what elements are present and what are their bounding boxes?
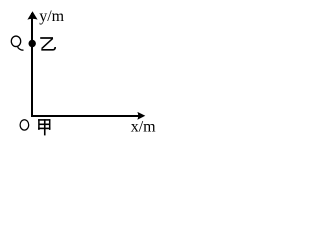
y-axis arrowhead [27, 11, 37, 19]
y-axis line [31, 13, 33, 117]
node Q dot on y-axis [29, 40, 36, 47]
particle label 甲 (first) [38, 119, 50, 135]
x-axis line [31, 115, 139, 117]
origin label O [20, 120, 29, 130]
svg-text:y/m: y/m [39, 8, 64, 25]
x-axis arrowhead [137, 112, 145, 120]
svg-text:x/m: x/m [131, 119, 156, 136]
particle label 乙 (second) [40, 38, 55, 50]
label Q [11, 36, 23, 50]
